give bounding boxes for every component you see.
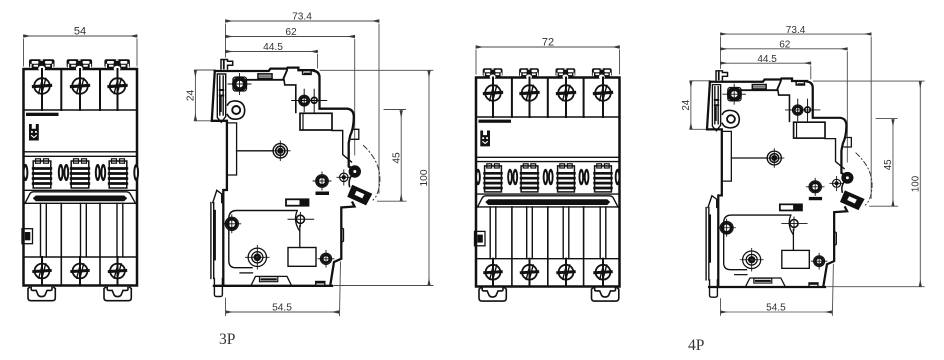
upper DIN clip [217,74,225,122]
mid horizontal line [237,150,274,152]
terminal cavity upper [300,113,332,130]
breaker body outline [24,69,138,286]
bottom mounting feet [28,287,55,300]
toggle pivot [350,166,360,176]
dimension 54 [24,36,138,66]
rating icon [29,124,39,141]
right edge bump [351,129,358,139]
svg-text:54.5: 54.5 [272,302,292,313]
body right upper outline [314,71,354,170]
svg-text:44.5: 44.5 [263,42,283,53]
terminal screw 2 [71,78,88,94]
bottom screw 3 (4P) [558,265,574,280]
bottom screw 1 (4P) [485,265,501,280]
screw center lines top [41,69,43,110]
black bar under rivet C [316,192,330,196]
dimension 73.4 [226,21,380,193]
bottom edge [214,285,332,287]
inner contour right [332,131,352,163]
bottom screw section line [476,258,620,260]
face bottom double line [24,151,138,153]
bottom screw 3 [109,264,125,279]
screw plate upper left [233,77,247,91]
tie bar bottom line [24,202,138,204]
svg-text:100: 100 [419,169,430,186]
body right lower outline [349,177,351,187]
screw center lines top [492,78,494,118]
face step inner line [284,80,296,113]
toggle handle 2 (4P) [521,164,538,192]
terminal screw 1 (4P) [484,85,501,101]
body top edge [215,68,314,71]
toggle handle 2 [71,159,89,188]
label bar [479,120,512,123]
dimension 54.5 [226,262,341,316]
left face edge [212,71,227,286]
terminal screw 2 (4P) [521,85,538,101]
label bar [26,113,59,116]
svg-text:45: 45 [391,152,402,164]
svg-text:54: 54 [74,26,86,38]
inner compartment rect [227,123,237,175]
selector plate (half dark) [286,199,309,205]
lower toggle slot lines [490,207,606,286]
screw section divider line [476,116,620,118]
lower inner contour [240,272,253,274]
pole divider lines top [511,78,513,118]
terminal box [288,248,316,267]
toggle handle 3 [109,159,127,188]
bottom mounting foot 2 [104,287,131,300]
top terminal clips [483,68,503,79]
terminal clip 2 [67,59,93,71]
terminal screw 4 (4P) [594,85,611,101]
toggle handle [348,186,372,205]
screw section divider line [24,109,138,111]
right lower bump [341,228,343,243]
svg-text:4P: 4P [688,337,704,354]
mid lower horizontal line [229,211,297,268]
rivet C [313,172,331,190]
dimension 24 [195,70,214,121]
bottom foot trapezoid [251,276,292,285]
bottom mounting foot 2 (4P) [592,288,619,301]
rivet A (top screw) [228,74,251,95]
face bottom double line [476,156,620,158]
toggle area bottom line [24,189,138,191]
bottom screw 4 (4P) [595,265,611,280]
dimension 62 [226,37,355,156]
bottom screw section line [24,256,138,258]
capsule highlight slits (4P) [477,172,618,182]
svg-text:3P: 3P [219,331,235,348]
side latch [475,231,486,245]
side view 4P (reuse of 3P side view drawing) [681,25,924,315]
bottom mounting feet [479,288,506,301]
terminal screw 3 [109,78,126,94]
toggle handle 3 (4P) [558,164,575,192]
rivet F [318,251,334,268]
terminal clip 3 (4P) [556,68,576,79]
rivet pair upper right [292,89,327,113]
top mounting tab [221,60,233,70]
terminal screw 3 (4P) [557,85,574,101]
wire to terminal [299,226,301,248]
lower pole divider lines [61,203,100,285]
breaker body outline [476,78,620,287]
lower DIN clip [211,190,223,296]
svg-text:62: 62 [285,27,297,38]
dimension 45 [378,110,407,202]
rivet B (center) [271,141,291,161]
toggle side capsules [23,164,140,181]
toggle handle 4 (4P) [595,164,612,192]
lower toggle slot lines [41,203,123,285]
top notch [303,70,312,74]
bottom screw 2 (4P) [521,265,537,280]
nameplate on top [246,70,287,80]
rating icon [480,131,490,147]
rivet D (dark) [337,170,351,185]
capsule highlight slits [25,167,138,177]
terminal clip 3 [104,59,129,71]
dimension 100 [320,70,433,285]
side latch [22,229,33,244]
terminal clip 2 (4P) [519,68,539,79]
terminal clip 4 (4P) [592,68,612,79]
rivet H [223,215,241,233]
rivet E (small) [288,213,314,227]
svg-text:24: 24 [186,90,197,102]
pole divider lines top [60,69,62,110]
dimension 44.5 [226,52,318,69]
handle tie bar [25,192,136,204]
dimension 72 [476,47,620,74]
rivet G (large) [246,246,270,270]
handle tie bar [478,196,619,207]
handle swing arc [364,146,380,201]
svg-text:72: 72 [542,37,554,49]
toggle area bottom line [476,193,620,195]
toggle side capsules [475,169,620,186]
bottom screw 2 [72,264,88,279]
top terminal clips [29,59,55,71]
bottom right notch [316,282,325,286]
tie bar bottom line [476,206,620,208]
lower pole divider lines [512,207,584,286]
lever boss with hinge hole [227,101,244,119]
svg-text:73.4: 73.4 [292,12,312,23]
